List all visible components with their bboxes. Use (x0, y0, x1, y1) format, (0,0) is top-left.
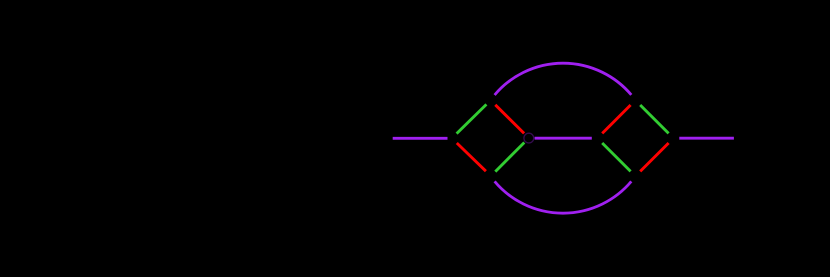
wire: left diamond upper-right edge T1-C1 (red) (495, 105, 524, 134)
wire: bottom arc propagator B1-B2 (purple) (495, 181, 632, 213)
wire: right diamond upper-right edge T2-V2 (green) (640, 105, 668, 133)
wire: left diamond upper-left edge V1-T1 (green) (457, 104, 487, 133)
wire: right diamond upper-left edge C2-T2 (red) (602, 105, 630, 133)
wire: right external propagator (purple) (679, 137, 734, 140)
wire: left diamond lower-right edge B1-C1 (green) (495, 143, 524, 172)
node: counterterm circle at C1 (524, 133, 534, 143)
wire: middle propagator C1-C2 (purple) (535, 137, 592, 140)
wire: right diamond lower-right edge B2-V2 (red) (640, 143, 668, 171)
wire: right diamond lower-left edge C2-B2 (green) (602, 143, 630, 171)
wire: left external propagator (purple) (393, 137, 448, 140)
wire: left diamond lower-left edge V1-B1 (red) (457, 143, 486, 171)
wire: top arc propagator T1-T2 (purple) (495, 63, 632, 95)
